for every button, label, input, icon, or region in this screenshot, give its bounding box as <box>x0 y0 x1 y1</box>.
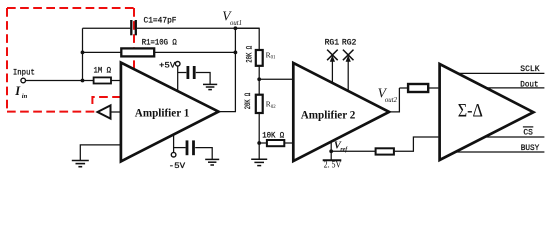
svg-text:Input: Input <box>13 68 35 77</box>
svg-text:SCLK: SCLK <box>520 65 539 74</box>
svg-text:+5V: +5V <box>159 62 176 71</box>
svg-text:10K Ω: 10K Ω <box>262 132 284 141</box>
svg-text:out2: out2 <box>385 97 398 104</box>
svg-text:Amplifier 1: Amplifier 1 <box>135 106 190 120</box>
svg-text:1M Ω: 1M Ω <box>94 67 112 76</box>
svg-text:Σ-Δ: Σ-Δ <box>458 100 483 121</box>
svg-text:2. 5V: 2. 5V <box>324 160 342 170</box>
svg-text:ref: ref <box>340 147 348 153</box>
svg-text:RG1: RG1 <box>325 39 340 48</box>
svg-text:in: in <box>22 93 28 100</box>
svg-text:CS: CS <box>523 128 533 137</box>
svg-text:C1=47pF: C1=47pF <box>144 16 177 25</box>
svg-text:RG2: RG2 <box>342 39 357 48</box>
svg-text:20K Ω: 20K Ω <box>244 46 254 63</box>
svg-text:R1=10G Ω: R1=10G Ω <box>142 39 177 48</box>
svg-text:Amplifier 2: Amplifier 2 <box>301 107 356 121</box>
svg-text:BUSY: BUSY <box>521 144 540 153</box>
svg-text:-5V: -5V <box>169 162 186 171</box>
svg-text:Dout: Dout <box>520 80 538 89</box>
svg-text:20K Ω: 20K Ω <box>243 93 253 110</box>
svg-text:out1: out1 <box>230 20 242 27</box>
